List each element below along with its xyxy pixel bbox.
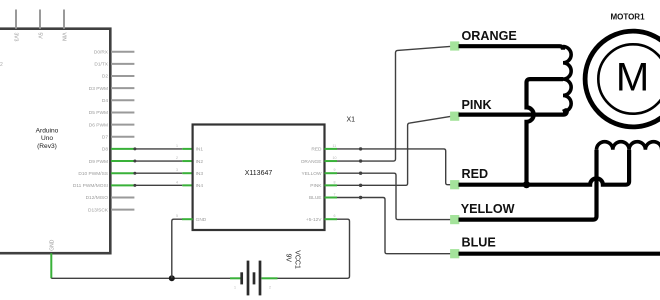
- wire D10 to IN3: [134, 172, 182, 174]
- terminal square YELLOW: [450, 215, 459, 224]
- svg-text:1: 1: [176, 144, 178, 148]
- thick wire PINK to coil1 bottom: [459, 110, 567, 114]
- svg-text:D0/RX: D0/RX: [94, 49, 109, 55]
- svg-text:ORANGE: ORANGE: [462, 29, 517, 43]
- svg-text:3: 3: [176, 168, 178, 172]
- thick wire RED from terminal through junction, hop over YELLOW, to coil2 center tap: [459, 150, 630, 185]
- svg-text:+5-12V: +5-12V: [306, 217, 322, 223]
- svg-text:IN1: IN1: [196, 147, 204, 153]
- svg-text:D4: D4: [102, 98, 108, 104]
- svg-text:ORANGE: ORANGE: [301, 159, 322, 165]
- svg-text:1: 1: [234, 286, 236, 290]
- net PINK thin wire X1 to pink terminal: [337, 116, 452, 185]
- X1 left pin numbers: [176, 144, 178, 218]
- net V+ thin wire battery plus to X1 +5-12V pin: [277, 219, 350, 278]
- svg-text:D9 PWM: D9 PWM: [89, 159, 108, 165]
- svg-text:D1/TX: D1/TX: [94, 62, 108, 68]
- svg-text:D5 PWM: D5 PWM: [89, 110, 108, 116]
- arduino pin VIN stub: [63, 10, 65, 29]
- svg-text:8: 8: [334, 180, 336, 184]
- svg-text:4: 4: [176, 180, 178, 184]
- terminal square PINK: [450, 112, 459, 121]
- X1 left pin labels: [196, 147, 207, 223]
- svg-text:7: 7: [334, 193, 336, 197]
- svg-text:PINK: PINK: [462, 98, 492, 112]
- svg-text:GND: GND: [196, 217, 207, 223]
- X1 right pin labels: [301, 147, 323, 223]
- arduino digital pin stubs D8-D11 (green, connected): [111, 149, 134, 185]
- svg-text:2: 2: [0, 62, 3, 68]
- net GND thin wire arduino GND to battery minus: [51, 277, 231, 279]
- svg-text:5V: 5V: [36, 33, 42, 40]
- net GND branch wire to X1 GND pin: [172, 219, 182, 278]
- svg-text:RED: RED: [311, 147, 322, 153]
- svg-text:D6 PWM: D6 PWM: [89, 122, 108, 128]
- svg-text:2: 2: [176, 156, 178, 160]
- motor coil2 (horizontal, YELLOW-BLUE winding): [597, 142, 660, 150]
- arduino pin 5V stub: [39, 10, 41, 29]
- svg-text:D10 PWM/SS: D10 PWM/SS: [78, 171, 108, 177]
- X1 pin RED stub: [325, 148, 338, 150]
- svg-text:(Rev3): (Rev3): [37, 143, 57, 150]
- svg-text:X113647: X113647: [245, 170, 273, 177]
- X1 pin PINK stub: [325, 184, 338, 186]
- svg-text:D8: D8: [102, 147, 108, 153]
- arduino GND stub (green): [50, 253, 52, 278]
- battery VCC1 plates: [242, 261, 260, 296]
- arduino pin 3V3 stub: [15, 10, 17, 29]
- X113647 driver board X1 body: [193, 125, 325, 231]
- svg-text:VCC1: VCC1: [294, 250, 301, 269]
- motor MOTOR1 outer circle: [585, 31, 660, 127]
- X1 pin BLUE stub: [325, 197, 338, 199]
- svg-text:IN2: IN2: [196, 159, 204, 165]
- net PINK bendpoint dot: [359, 184, 362, 187]
- motor coil1 (vertical, ORANGE-PINK winding): [563, 47, 571, 112]
- svg-text:X1: X1: [347, 117, 356, 124]
- arduino digital pin stubs D0-D7, D12, D13 (gray): [111, 52, 134, 210]
- svg-text:10: 10: [333, 156, 337, 160]
- net RED thin wire X1 to red terminal: [337, 149, 452, 185]
- X1 pin GND stub: [182, 218, 193, 220]
- svg-text:3V3: 3V3: [12, 33, 18, 42]
- svg-text:2: 2: [269, 286, 271, 290]
- svg-text:VIN: VIN: [60, 33, 66, 42]
- net ORANGE bendpoint dot: [359, 159, 362, 162]
- svg-text:GND: GND: [49, 239, 55, 251]
- X1 pin YELLOW stub: [325, 172, 338, 174]
- svg-text:M: M: [616, 56, 649, 100]
- svg-text:D11 PWM/MOSI: D11 PWM/MOSI: [73, 183, 108, 189]
- thick wire YELLOW to coil2 left end: [459, 150, 597, 220]
- net ORANGE thin wire X1 to orange terminal: [337, 46, 452, 161]
- svg-text:9: 9: [334, 168, 336, 172]
- X1 right pin numbers: [333, 144, 337, 218]
- svg-text:BLUE: BLUE: [309, 195, 322, 201]
- net BLUE bendpoint dot: [359, 196, 362, 199]
- svg-text:IN4: IN4: [196, 183, 204, 189]
- svg-text:D12/MISO: D12/MISO: [86, 195, 109, 201]
- arduino digital pin labels: [73, 49, 109, 213]
- svg-text:D3 PWM: D3 PWM: [89, 86, 108, 92]
- svg-text:IN3: IN3: [196, 171, 204, 177]
- svg-text:YELLOW: YELLOW: [302, 171, 322, 177]
- motor MOTOR1 inner circle: [598, 44, 660, 113]
- wire D11 to IN4: [134, 184, 182, 186]
- battery VCC1 positive stub (green): [262, 277, 278, 279]
- svg-text:BLUE: BLUE: [462, 235, 496, 249]
- svg-text:Uno: Uno: [41, 135, 53, 142]
- net GND branch junction dot: [169, 275, 175, 281]
- X1 pin +5-12V stub: [325, 218, 338, 220]
- wire D9 to IN2: [134, 160, 182, 162]
- thick wire BLUE to right edge: [459, 252, 660, 256]
- svg-text:D7: D7: [102, 134, 108, 140]
- svg-text:PINK: PINK: [310, 183, 322, 189]
- svg-text:6: 6: [334, 214, 336, 218]
- arduino module U1 body: [0, 29, 110, 254]
- svg-text:D13/SCK: D13/SCK: [88, 207, 109, 213]
- net YELLOW thin wire X1 to yellow terminal: [337, 173, 452, 219]
- svg-text:11: 11: [333, 144, 337, 148]
- net RED bendpoint dot: [359, 147, 362, 150]
- svg-text:9V: 9V: [285, 254, 292, 263]
- svg-text:RED: RED: [462, 167, 489, 181]
- wire D8 to IN1: [134, 148, 182, 150]
- battery VCC1 negative stub (green): [230, 277, 241, 279]
- thick wire ORANGE to coil1 top: [459, 46, 564, 50]
- terminal square BLUE: [450, 249, 459, 258]
- net BLUE thin wire X1 to blue terminal: [337, 198, 452, 254]
- svg-text:D2: D2: [102, 74, 108, 80]
- X1 pin ORANGE stub: [325, 160, 338, 162]
- junction dot RED net: [523, 181, 530, 188]
- coil1 center tap wire to RED junction with hop over PINK: [527, 79, 564, 185]
- svg-text:Arduino: Arduino: [36, 127, 59, 134]
- svg-text:YELLOW: YELLOW: [461, 202, 515, 216]
- net YELLOW bendpoint dot: [359, 172, 362, 175]
- svg-text:MOTOR1: MOTOR1: [610, 13, 645, 22]
- svg-text:5: 5: [176, 214, 178, 218]
- terminal square ORANGE: [450, 41, 459, 50]
- terminal square RED: [450, 180, 459, 189]
